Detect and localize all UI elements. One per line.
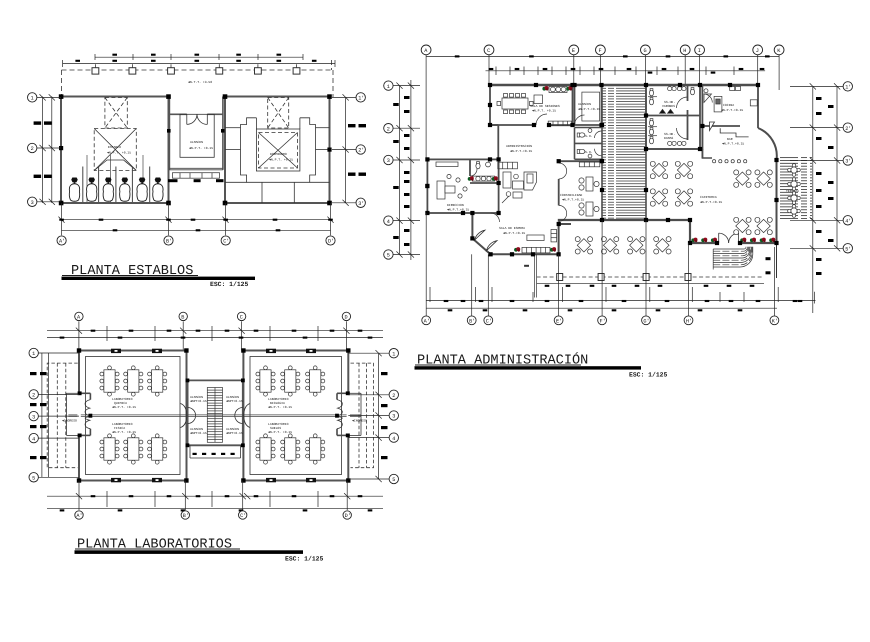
admin: private bathrooms stack [575, 128, 602, 160]
svg-text:◄N.P.T.+0.15: ◄N.P.T.+0.15 [721, 108, 743, 112]
stables: bottom dimension lines [58, 203, 333, 235]
admin: building top wall [490, 84, 758, 86]
svg-text:SALA DE SESIONES: SALA DE SESIONES [530, 104, 560, 108]
svg-text:2': 2' [845, 126, 851, 132]
labs: stair south porch [190, 445, 241, 458]
svg-text:2: 2 [31, 146, 34, 152]
labs: west entrance bay [77, 395, 80, 434]
svg-text:H: H [683, 48, 686, 54]
admin: closet row below office top [498, 162, 518, 169]
admin: right grid bubbles 1'-5' [843, 82, 852, 253]
admin: conference table [497, 94, 533, 114]
stables: bottom grid bubbles A' B' C' D' [57, 236, 335, 245]
admin: left grid bubbles 1-5 [384, 81, 393, 259]
svg-text:◄N.P.T. +0.15: ◄N.P.T. +0.15 [268, 405, 292, 409]
svg-text:◄NPT+0.15: ◄NPT+0.15 [226, 431, 243, 435]
svg-text:C: C [240, 315, 243, 321]
svg-text:1': 1' [845, 85, 851, 91]
svg-text:G': G' [643, 318, 649, 324]
svg-text:◄N.P.T.+0.15: ◄N.P.T.+0.15 [447, 208, 469, 212]
svg-text:◄N.P.T.+0.15: ◄N.P.T.+0.15 [578, 107, 600, 111]
svg-text:4: 4 [387, 219, 390, 225]
svg-text:◄N.P.T. +0.15: ◄N.P.T. +0.15 [189, 146, 213, 150]
labs: top dimension lines [47, 321, 383, 350]
admin: kitchen COCINA [702, 85, 758, 128]
svg-text:B: B [181, 315, 184, 321]
title: PLANTA ESTABLOS [62, 264, 256, 288]
svg-text:J: J [756, 48, 759, 54]
svg-text:C': C' [486, 318, 492, 324]
svg-text:3: 3 [392, 414, 395, 420]
svg-text:A': A' [59, 239, 65, 245]
svg-text:ESC: 1/125: ESC: 1/125 [210, 281, 249, 288]
admin: mostrador counter [472, 176, 494, 181]
svg-text:C': C' [223, 239, 229, 245]
admin: conference lavatory row [549, 87, 567, 93]
svg-text:DORMIDERO: DORMIDERO [270, 152, 287, 156]
stables: top colonnade columns [92, 64, 99, 74]
svg-text:1: 1 [392, 351, 395, 357]
svg-text:5: 5 [32, 476, 35, 482]
admin: office door arc into sala [491, 213, 500, 222]
svg-text:◄INGRESO: ◄INGRESO [62, 419, 77, 423]
svg-text:◄N.P.T.+0.15: ◄N.P.T.+0.15 [722, 142, 744, 146]
svg-text:A': A' [424, 318, 430, 324]
svg-text:◄NPT+0.15: ◄NPT+0.15 [190, 431, 207, 435]
admin: office block DIRECCION [427, 159, 498, 213]
labs: lab tables right wing [256, 366, 275, 396]
svg-text:I: I [698, 48, 701, 54]
admin: long south wall under corridor [558, 219, 690, 221]
svg-text:VARONES: VARONES [662, 104, 675, 108]
labs: corner columns [77, 348, 351, 482]
svg-text:S.H.: S.H. [585, 134, 593, 138]
svg-text:D': D' [328, 239, 334, 245]
svg-text:1: 1 [32, 351, 35, 357]
admin: bar room with curved counter [646, 122, 749, 158]
labs: right wing inner room [250, 357, 342, 475]
svg-text:◄N.P.T. +0.15: ◄N.P.T. +0.15 [268, 430, 292, 434]
admin: top tick line 2 [486, 67, 766, 76]
labs: right grid bubbles 1-5 [389, 349, 398, 484]
svg-text:B': B' [166, 239, 172, 245]
svg-text:F': F' [600, 318, 606, 324]
title: PLANTA ADMINISTRACION [415, 352, 668, 379]
labs: bottom dimension lines [47, 481, 383, 511]
admin: curved entrance steps [713, 247, 753, 270]
stables: right grid bubbles 1' 2' 3' [356, 93, 365, 208]
labs: stair block walls [188, 380, 243, 445]
stables: top dimension line 2 [63, 60, 335, 67]
labs: left wing walls [79, 351, 187, 481]
stables: black corner columns [59, 94, 332, 205]
labs: left grid bubbles 1-5 [29, 348, 38, 482]
admin: black column blocks [425, 83, 778, 257]
admin: top grid bubbles A C E F G H I J K [421, 45, 784, 55]
svg-text:3: 3 [387, 158, 390, 164]
svg-text:CONTABILIDAD: CONTABILIDAD [560, 193, 582, 197]
admin: cafeteria right wall with curve [758, 128, 777, 243]
svg-text:◄N.P.T.+0.15: ◄N.P.T.+0.15 [562, 198, 584, 202]
svg-text:2': 2' [358, 148, 364, 154]
svg-text:F: F [599, 48, 602, 54]
admin: flowers along cafeteria wall [691, 238, 697, 243]
stables: roof overhang dashed outline [62, 60, 334, 97]
stables: left room roof box [94, 129, 136, 171]
svg-text:4': 4' [845, 219, 851, 225]
svg-text:ESC: 1/125: ESC: 1/125 [629, 372, 668, 379]
stables: six cows [69, 178, 79, 202]
stables: left grid bubbles 1 2 3 [28, 93, 37, 207]
svg-text:B': B' [183, 513, 189, 519]
labs: lab tables left wing [100, 366, 119, 396]
svg-text:E: E [572, 48, 575, 54]
svg-text:C': C' [240, 513, 246, 519]
admin: sala de espera double door on angle [475, 230, 498, 250]
svg-text:PLANTA ADMINISTRACIÓN: PLANTA ADMINISTRACIÓN [417, 352, 588, 369]
svg-text:ESC: 1/125: ESC: 1/125 [285, 556, 324, 563]
svg-text:3: 3 [32, 414, 35, 420]
svg-text:2: 2 [387, 126, 390, 132]
title: PLANTA LABORATORIOS [75, 538, 324, 563]
labs: wall funnel openings at corridor [181, 404, 251, 428]
svg-text:COCINA: COCINA [723, 103, 734, 107]
svg-text:5': 5' [845, 247, 851, 253]
svg-text:PLANTA LABORATORIOS: PLANTA LABORATORIOS [77, 538, 232, 553]
labs: right porch dashed [351, 363, 374, 468]
admin: sala de espera walls [472, 213, 571, 254]
admin: contabilidad room [559, 161, 602, 224]
stables: central vestibule walls [169, 97, 223, 170]
svg-text:◄N.P.T. +0.15: ◄N.P.T. +0.15 [112, 405, 136, 409]
admin: terrace tables below [575, 237, 592, 254]
svg-text:1: 1 [31, 95, 34, 101]
admin: sala de espera furniture [522, 230, 557, 253]
stables: right room walls [225, 97, 330, 204]
stables: right dimension line [332, 94, 356, 206]
svg-text:B': B' [469, 318, 475, 324]
admin: cafeteria bottom wall with door [690, 220, 777, 243]
svg-text:◄NPT+0.15: ◄NPT+0.15 [226, 399, 243, 403]
svg-text:◄INGRESO: ◄INGRESO [352, 419, 367, 423]
svg-text:◄N.P.T. +0.15: ◄N.P.T. +0.15 [112, 430, 136, 434]
admin: left dimension strip [393, 80, 420, 260]
svg-text:◄N.T.T. +3.50: ◄N.T.T. +3.50 [188, 80, 212, 84]
labs: central corridor axis [68, 415, 361, 417]
svg-text:5: 5 [387, 253, 390, 259]
svg-text:2: 2 [32, 393, 35, 399]
svg-text:DIRECCION: DIRECCION [447, 203, 464, 207]
stables: stalls and dividers [83, 155, 150, 202]
svg-text:2: 2 [392, 393, 395, 399]
svg-text:◄N.P.T.+0.15: ◄N.P.T.+0.15 [503, 231, 525, 235]
admin: banos block [646, 85, 700, 149]
svg-text:ADMINISTRACION: ADMINISTRACION [506, 144, 532, 148]
labs: right wing walls [243, 351, 348, 481]
labs: left wing inner room [86, 357, 181, 475]
svg-text:S.H.: S.H. [585, 150, 593, 154]
labs: left porch dashed [47, 363, 77, 468]
svg-text:◄N.P.T. +0.15: ◄N.P.T. +0.15 [269, 158, 293, 162]
admin: south terrace dashed line with columns [537, 276, 764, 278]
svg-text:G: G [644, 48, 647, 54]
labs: stair door arcs [188, 408, 243, 424]
admin: cafeteria tables [650, 161, 667, 178]
svg-text:D: D [345, 315, 348, 321]
svg-text:A': A' [76, 513, 82, 519]
labs: staircase [207, 388, 222, 443]
svg-text:H': H' [686, 318, 692, 324]
svg-text:1': 1' [358, 95, 364, 101]
admin: top dimension line [426, 55, 779, 160]
admin: entrance walkway lines [524, 254, 537, 297]
svg-text:DAMAS: DAMAS [664, 136, 673, 140]
svg-text:4: 4 [32, 436, 35, 442]
stables: right room stepped hall [225, 118, 330, 203]
svg-text:3': 3' [845, 159, 851, 165]
svg-text:◄N.P.T.+0.15: ◄N.P.T.+0.15 [510, 149, 532, 153]
svg-text:C: C [487, 48, 490, 54]
admin: administracion zone desk [502, 172, 537, 203]
admin: bottom grid bubbles [422, 316, 779, 325]
svg-text:4: 4 [392, 436, 395, 442]
svg-text:5: 5 [392, 477, 395, 483]
admin: right dimension strip [790, 83, 843, 313]
svg-text:K': K' [772, 318, 778, 324]
svg-text:BAR: BAR [727, 137, 733, 141]
svg-text:1: 1 [387, 84, 390, 90]
labs: east entrance bay [347, 395, 350, 434]
stables: right room skylight cross box [259, 98, 298, 169]
stables: vestibule porch line and bench [169, 168, 223, 178]
svg-text:CAFETERIA: CAFETERIA [700, 195, 717, 199]
svg-text:D': D' [345, 513, 351, 519]
admin: bar stools [713, 160, 747, 163]
svg-text:◄N.P.T. +0.15: ◄N.P.T. +0.15 [107, 151, 131, 155]
svg-text:◄NPT+0.15: ◄NPT+0.15 [190, 399, 207, 403]
svg-text:E': E' [556, 318, 562, 324]
admin: corridor ramp hatch [602, 85, 646, 220]
stables: vestibule inner room [180, 114, 214, 157]
labs: left dimension strip [38, 353, 79, 477]
stables: left room skylight cross box [105, 98, 127, 129]
svg-text:ESTABLO: ESTABLO [108, 145, 121, 149]
labs: bottom grid bubbles A' B' C' D' [75, 511, 352, 519]
svg-text:◄N.P.T. +0.15: ◄N.P.T. +0.15 [532, 109, 556, 113]
admin: cafeteria entry double door [719, 233, 739, 243]
stables: left room walls [61, 97, 169, 204]
svg-text:3: 3 [31, 200, 34, 206]
admin: almacen room [575, 85, 602, 125]
admin: conference room SALA DE SESIONES [490, 85, 602, 161]
svg-text:TERRAZA: TERRAZA [786, 189, 799, 193]
labs: right dimension strip [348, 350, 389, 482]
svg-text:ALMACEN: ALMACEN [578, 102, 591, 106]
svg-text:ALMACEN: ALMACEN [190, 140, 203, 144]
labs: wall window cassettes [111, 349, 316, 483]
admin: conference closet row [534, 95, 572, 126]
stables: top dimension line 1 [95, 54, 303, 60]
svg-text:3': 3' [358, 201, 364, 207]
stables: left dimension strip [37, 94, 61, 205]
admin: right side terrace hatch [778, 157, 812, 220]
svg-text:◄N.P.T.+0.15: ◄N.P.T.+0.15 [700, 200, 722, 204]
admin: bottom dimension lines [426, 213, 815, 316]
labs: top grid bubbles A B C D [75, 312, 351, 320]
svg-text:SALA DE ESPERA: SALA DE ESPERA [499, 226, 525, 230]
